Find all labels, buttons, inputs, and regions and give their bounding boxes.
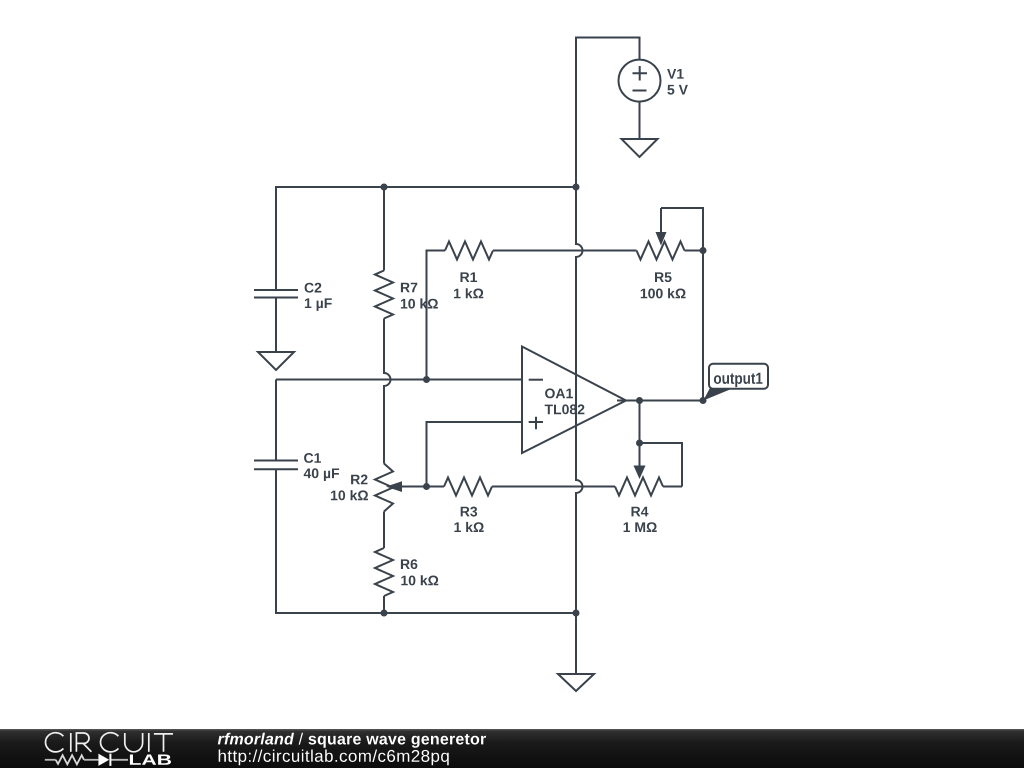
wire op-amp minus input (y=379.5) bbox=[276, 379, 522, 381]
capacitor C1 bbox=[254, 461, 298, 470]
node R2 wiper / R3 / plus leg bbox=[423, 483, 430, 490]
resistor R1 bbox=[445, 242, 493, 260]
wire main vertical with hops bbox=[576, 187, 583, 613]
output1 flag bbox=[703, 364, 768, 401]
node op-amp output bbox=[636, 397, 643, 404]
node output flag bbox=[700, 397, 707, 404]
op-amp OA1 bbox=[522, 347, 626, 454]
op-amp plus pin mark bbox=[529, 417, 543, 429]
node minus wire / R1 leg bbox=[423, 376, 430, 383]
resistor R7 bbox=[375, 271, 393, 319]
node bottom rail / R6 bbox=[381, 610, 388, 617]
potentiometer R4 bbox=[615, 478, 663, 496]
wire V1 to ground bbox=[639, 102, 641, 139]
logo LAB text bbox=[130, 755, 171, 765]
wire R2 to R6 bbox=[383, 512, 385, 549]
ground below C2 bbox=[258, 352, 294, 370]
label OA1 bbox=[545, 388, 573, 398]
op-amp minus pin mark bbox=[529, 379, 543, 381]
label R3 bbox=[461, 507, 477, 517]
value 10 kOhm R2 bbox=[331, 490, 368, 500]
potentiometer R2 bbox=[375, 464, 393, 512]
label R2 bbox=[351, 475, 367, 485]
node bottom rail / ground bbox=[573, 610, 580, 617]
potentiometer R5 bbox=[637, 242, 685, 260]
label R5 bbox=[655, 272, 672, 282]
resistor R6 bbox=[375, 548, 393, 596]
value 100 kOhm R5 bbox=[641, 288, 686, 298]
wire R7 to R2 with hop over minus wire bbox=[384, 319, 391, 464]
wire R6 bottom lead bbox=[383, 596, 385, 613]
wire op-amp plus input leg bbox=[427, 422, 523, 487]
value TL082 bbox=[545, 404, 585, 414]
wire R4 feedback loop bbox=[640, 443, 683, 487]
value 10 kOhm R7 bbox=[401, 298, 438, 308]
logo resistor-diode wire bbox=[45, 755, 128, 764]
wire R1 left leg and lead bbox=[427, 251, 446, 380]
footer bar bbox=[0, 729, 1024, 768]
wire top rail and C2 upper lead bbox=[276, 187, 576, 289]
value 10 kOhm R6 bbox=[401, 575, 438, 585]
wire bottom ground lead bbox=[575, 613, 577, 674]
node R5 right bbox=[700, 247, 707, 254]
label R1 bbox=[461, 272, 478, 282]
resistor R3 bbox=[444, 478, 492, 496]
R2 wiper arrow bbox=[400, 486, 427, 488]
R5 wiper arrow bbox=[660, 208, 662, 234]
wire R4 right lead bbox=[663, 486, 682, 488]
label R6 bbox=[401, 559, 418, 569]
wire R3-R4 horizontal bbox=[427, 486, 445, 488]
footer url line bbox=[219, 750, 449, 766]
label C2 bbox=[305, 283, 322, 293]
logo CIRCUIT wordmark bbox=[46, 733, 173, 752]
node R4 wiper bbox=[636, 440, 643, 447]
wire R5 wiper loop bbox=[661, 208, 703, 251]
wire C1 lower lead and bottom rail bbox=[276, 470, 576, 614]
wire R7 top lead bbox=[383, 187, 385, 271]
wire R3 to R4 bbox=[492, 486, 615, 488]
voltage source V1 bbox=[619, 60, 661, 102]
value 1 uF bbox=[305, 298, 332, 311]
label R7 bbox=[401, 283, 417, 293]
value 1 kOhm R3 bbox=[454, 522, 483, 532]
wire top loop from V1 to main vertical bbox=[576, 38, 640, 188]
label R4 bbox=[632, 507, 649, 517]
node top rail / main vertical bbox=[573, 184, 580, 191]
value 40 uF bbox=[304, 468, 339, 481]
wire C2 lower lead bbox=[275, 298, 277, 352]
wire C1 upper lead bbox=[275, 380, 277, 461]
capacitor C2 bbox=[254, 290, 298, 298]
value 5 V bbox=[667, 85, 688, 95]
value 1 kOhm R1 bbox=[454, 288, 483, 298]
ground below V1 bbox=[622, 139, 658, 157]
wire output to R4 wiper node bbox=[639, 401, 641, 444]
wire R1 to R5 bbox=[493, 250, 637, 252]
wire R5 right lead bbox=[685, 250, 704, 252]
label V1 bbox=[667, 69, 684, 79]
node top rail / R7 bbox=[381, 184, 388, 191]
value 1 MOhm R4 bbox=[624, 522, 657, 532]
R4 wiper arrow bbox=[639, 443, 641, 467]
wire op-amp output bbox=[617, 400, 703, 402]
logo diode bbox=[98, 754, 111, 766]
label C1 bbox=[304, 453, 321, 463]
footer title line bbox=[218, 733, 486, 748]
wire right column to output bbox=[702, 251, 704, 401]
ground bottom bbox=[558, 674, 594, 691]
